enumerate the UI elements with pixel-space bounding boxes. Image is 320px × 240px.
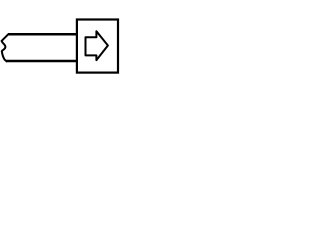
arrow icon (block arrow pointing right) [86,31,108,60]
bus break squiggle (torn-edge symbol) [2,34,9,62]
block U1 (connector box) [77,20,118,73]
wire bottom (bus lower line) [6,60,76,63]
wire top (bus upper line) [8,33,77,36]
